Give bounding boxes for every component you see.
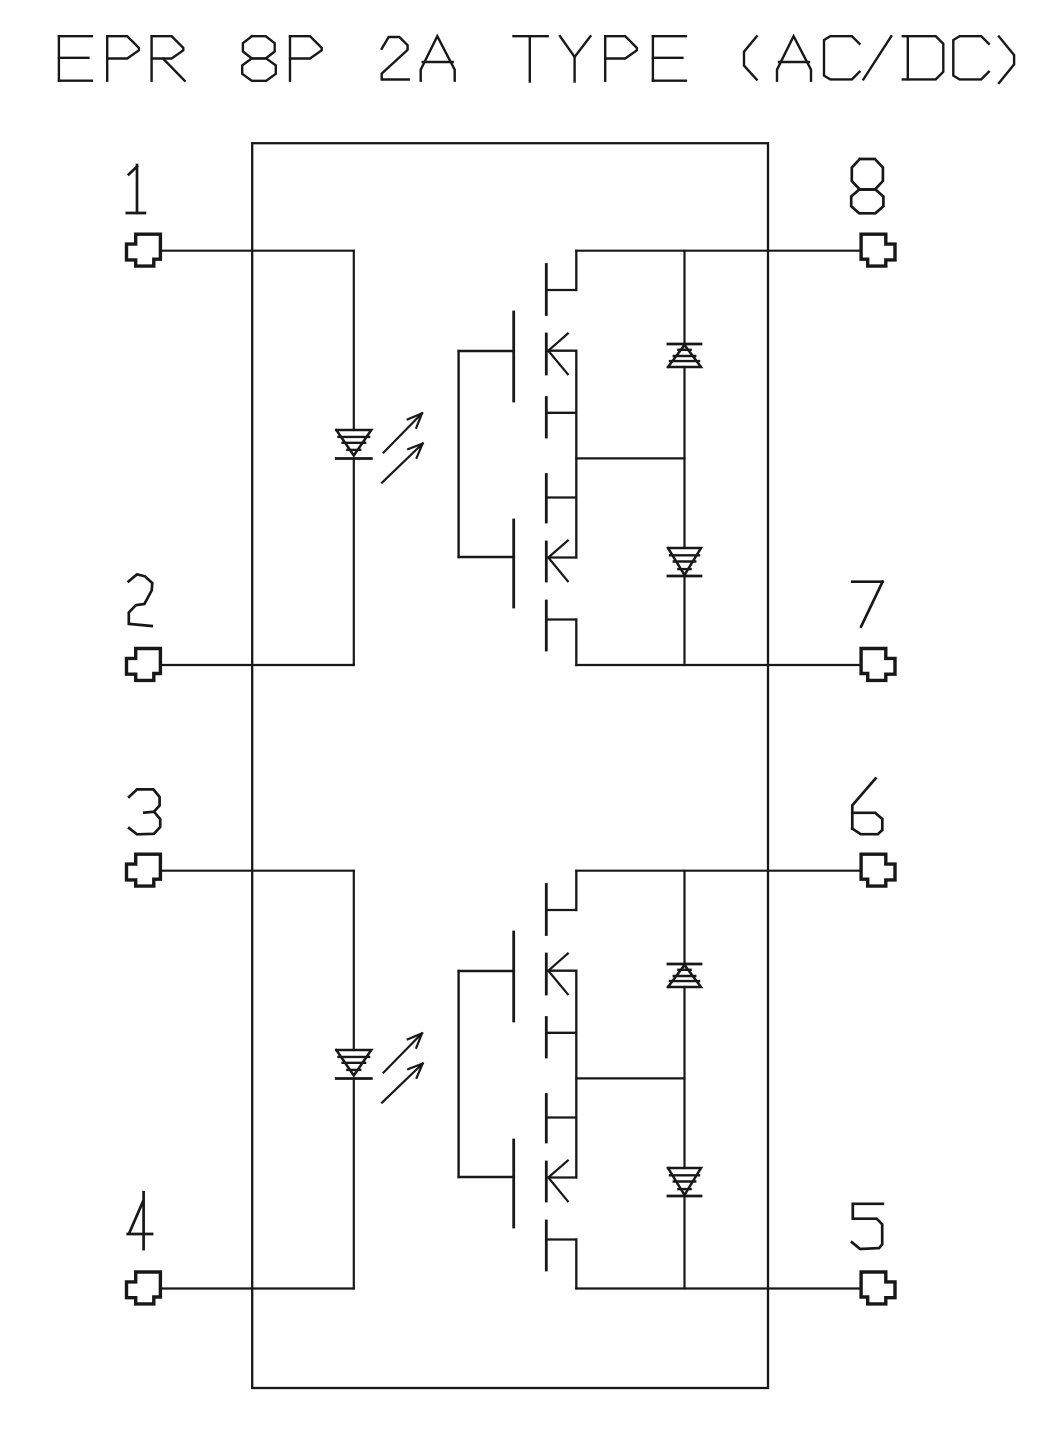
pin 2 label <box>129 574 153 626</box>
gate bus (coupled gates) <box>459 971 514 1177</box>
MOSFET Q-top body/source leads <box>546 971 576 1178</box>
wire: drain bottom to pin bottom-right <box>576 1287 861 1289</box>
pin 1 pad <box>127 234 161 266</box>
pin 4 label <box>128 1192 152 1249</box>
MOSFET Q-top gate plate <box>512 932 515 1021</box>
pin 8 pad <box>861 234 895 266</box>
pin 1 label <box>127 165 145 213</box>
IC package outline <box>252 143 768 1388</box>
MOSFET Q-top body arrow <box>548 334 568 375</box>
wire: LED cathode to pin bottom-left <box>160 664 353 666</box>
light emission arrows <box>382 413 423 482</box>
light emission arrows <box>382 1033 423 1102</box>
pin 7 pad <box>861 649 895 681</box>
MOSFET Q-top drain lead <box>546 251 576 290</box>
wire: drain top to pin top-right <box>576 870 861 872</box>
wire: common source node to clamp diodes <box>576 1077 684 1079</box>
pin 6 label <box>852 779 882 835</box>
title text: EPR 8P 2A TYPE (AC/DC) <box>59 36 1014 83</box>
pin 8 label <box>851 159 883 213</box>
pin 6 pad <box>861 854 895 886</box>
MOSFET Q-bottom gate plate <box>512 520 515 607</box>
MOSFET Q-bottom source/body leads <box>546 498 576 558</box>
MOSFET Q-bottom drain lead <box>546 1240 576 1289</box>
wire: common source node to clamp diodes <box>576 457 684 459</box>
MOSFET Q-top body arrow <box>548 954 568 995</box>
wire: drain bottom to pin bottom-right <box>576 664 861 666</box>
zener clamp diode (lower, cathode down) <box>668 1168 701 1196</box>
MOSFET Q-bottom channel segments <box>545 475 548 651</box>
MOSFET Q-bottom gate plate <box>512 1140 515 1227</box>
pin 5 pad <box>861 1272 895 1304</box>
pin 3 pad <box>127 854 161 886</box>
clamp diode branch wire <box>683 871 685 1289</box>
MOSFET Q-top channel segments <box>545 265 548 438</box>
pin 2 pad <box>127 649 161 681</box>
MOSFET Q-top channel segments <box>545 885 548 1058</box>
zener clamp diode (upper, cathode up) <box>668 964 701 987</box>
zener clamp diode (upper, cathode up) <box>668 344 701 367</box>
MOSFET Q-bottom channel segments <box>545 1095 548 1271</box>
wire: pin top-left to LED anode (row y=250.7) <box>160 250 353 252</box>
LED (emitter diode) on branch x=353.8 <box>336 251 371 665</box>
MOSFET Q-bottom drain lead <box>546 620 576 666</box>
zener clamp diode (lower, cathode down) <box>668 548 701 576</box>
clamp diode branch wire <box>683 251 685 665</box>
pin 4 pad <box>127 1272 161 1304</box>
wire: pin top-left to LED anode (row y=870.7) <box>160 870 353 872</box>
LED (emitter diode) on branch x=353.8 <box>336 871 371 1289</box>
MOSFET Q-bottom body arrow <box>548 541 568 582</box>
wire: drain top to pin top-right <box>576 250 861 252</box>
pin 5 label <box>852 1204 883 1249</box>
pin 7 label <box>852 582 882 627</box>
MOSFET Q-top gate plate <box>512 312 515 401</box>
MOSFET Q-bottom body arrow <box>548 1161 568 1202</box>
MOSFET Q-bottom source/body leads <box>546 1118 576 1178</box>
wire: LED cathode to pin bottom-left <box>160 1287 353 1289</box>
pin 3 label <box>129 789 160 834</box>
gate bus (coupled gates) <box>459 351 514 557</box>
MOSFET Q-top drain lead <box>546 871 576 910</box>
MOSFET Q-top body/source leads <box>546 351 576 558</box>
